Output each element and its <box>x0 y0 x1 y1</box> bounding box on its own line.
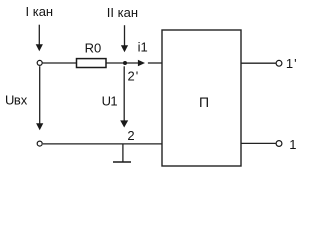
wire output 1 from box П <box>241 142 276 144</box>
box П (four-terminal network) <box>162 30 241 166</box>
svg-text:1': 1' <box>286 56 298 71</box>
wire bottom: input terminal to box П through ground node <box>43 143 162 145</box>
wire: I кан arrow shaft <box>38 25 40 45</box>
svg-text:II кан: II кан <box>107 5 138 20</box>
arrowhead: Uвх arrow (points down) <box>36 123 43 130</box>
svg-text:2: 2 <box>127 128 134 143</box>
svg-text:R0: R0 <box>85 40 102 55</box>
arrowhead: current i1 (points right) <box>138 60 145 66</box>
terminal: output 1' (open circle) <box>276 60 282 66</box>
arrowhead: II кан input arrow <box>121 45 128 52</box>
wire: U1 voltage arrow shaft (node 2' down) <box>123 66 125 121</box>
wire top: after i1 arrow into box П <box>148 62 162 64</box>
ground bar <box>113 161 131 163</box>
svg-text:i1: i1 <box>138 39 148 54</box>
terminal: input bottom (open circle) <box>37 141 42 146</box>
arrowhead: I кан input arrow <box>36 44 43 51</box>
wire top: input terminal to resistor R0 <box>43 62 77 64</box>
arrowhead: U1 arrow (points down) <box>120 120 128 127</box>
wire: II кан arrow shaft <box>124 25 126 46</box>
terminal: input top (open circle) <box>37 60 42 65</box>
svg-text:1: 1 <box>289 137 296 152</box>
ground stub <box>122 144 124 162</box>
wire top: resistor R0 to node 2' and on to arrow i1 <box>106 62 139 64</box>
resistor R0 <box>77 59 107 68</box>
svg-text:2': 2' <box>128 68 140 83</box>
svg-text:П: П <box>199 94 209 110</box>
svg-text:I кан: I кан <box>26 4 54 19</box>
node 2' junction dot <box>123 61 127 65</box>
terminal: output 1 (open circle) <box>276 141 282 147</box>
svg-text:U1: U1 <box>102 93 118 108</box>
wire output 1' from box П <box>241 62 276 64</box>
wire: Uвх voltage arrow shaft (left vertical) <box>39 66 41 124</box>
svg-text:вх: вх <box>14 92 28 107</box>
